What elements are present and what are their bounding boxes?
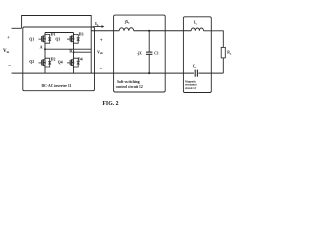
junction C1 top xyxy=(148,30,150,32)
wire top rail xyxy=(45,32,74,34)
svg-text:Ls: Ls xyxy=(194,21,197,26)
svg-text:D4: D4 xyxy=(78,57,83,62)
svg-text:DC-AC inverter 11: DC-AC inverter 11 xyxy=(42,84,72,88)
wire resistor RL bottom lead xyxy=(222,58,224,73)
junction node B xyxy=(73,51,75,53)
resistor RL xyxy=(221,47,225,58)
svg-text:FIG. 2: FIG. 2 xyxy=(102,101,118,107)
junction C1 bottom xyxy=(148,72,150,74)
wire node B horizontal xyxy=(74,51,92,53)
inductor Ls xyxy=(191,28,203,31)
wire from inductor Ls to resistor RL xyxy=(204,31,224,48)
svg-text:B: B xyxy=(69,48,72,53)
svg-text:A: A xyxy=(40,45,43,50)
svg-text:Cs: Cs xyxy=(193,64,197,69)
svg-text:Soft-switching: Soft-switching xyxy=(117,80,140,84)
transistor Q4 with diode D4 xyxy=(67,58,80,68)
svg-text:-jX: -jX xyxy=(137,52,142,56)
current arrow Ip xyxy=(93,26,102,28)
transistor Q3 with diode D3 xyxy=(67,34,80,44)
svg-text:D1: D1 xyxy=(51,32,56,37)
svg-text:D3: D3 xyxy=(79,32,84,37)
svg-text:−: − xyxy=(100,66,103,72)
transistor Q1 with diode D1 xyxy=(39,34,52,44)
svg-text:control circuit 12: control circuit 12 xyxy=(116,85,143,89)
transistor Q2 with diode D2 xyxy=(39,58,52,68)
wire from inductor L1 to right xyxy=(134,30,192,32)
svg-text:C1: C1 xyxy=(154,52,159,56)
svg-text:Q4: Q4 xyxy=(58,61,63,65)
wire node A horizontal xyxy=(45,48,91,50)
svg-text:Vin: Vin xyxy=(3,49,9,54)
box DC-AC inverter 11 xyxy=(23,27,95,91)
wire right leg xyxy=(73,33,75,74)
svg-text:Vab: Vab xyxy=(97,49,103,55)
wire bottom bus right of capacitor Cs xyxy=(198,72,223,74)
wire left leg xyxy=(44,33,46,74)
svg-text:jXL: jXL xyxy=(124,20,131,25)
svg-text:−: − xyxy=(8,63,11,69)
inductor L1 xyxy=(119,28,134,31)
wire overhead from + input over the inverter box xyxy=(22,16,92,74)
svg-text:Q2: Q2 xyxy=(29,60,34,64)
capacitor Cs xyxy=(194,70,196,77)
svg-text:+: + xyxy=(100,38,103,43)
svg-text:Q1: Q1 xyxy=(29,37,34,41)
wire top output to middle and right boxes xyxy=(91,30,119,32)
svg-text:RL: RL xyxy=(227,51,232,56)
svg-text:D2: D2 xyxy=(51,57,56,62)
capacitor C1 xyxy=(148,31,150,52)
svg-text:+: + xyxy=(7,35,10,41)
wire bottom rail and bottom bus to the right xyxy=(12,72,195,74)
box Soft-switching control circuit 12 xyxy=(114,15,166,92)
svg-text:circuit 13: circuit 13 xyxy=(185,87,197,90)
junction node A xyxy=(44,48,46,50)
box Magnetic resonance circuit 13 xyxy=(183,17,211,93)
wire + input stub xyxy=(12,27,22,29)
svg-text:Q3: Q3 xyxy=(55,38,60,42)
